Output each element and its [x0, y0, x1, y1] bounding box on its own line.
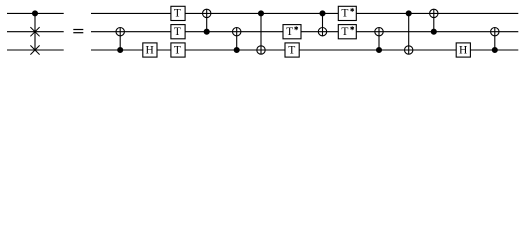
cnot3 target q1: [233, 28, 241, 36]
gate T3 box q2: [171, 43, 185, 57]
cnot4 target q2: [257, 46, 265, 54]
cnot3 control q2: [234, 48, 239, 53]
fredkin swap cross q1: [30, 27, 39, 36]
cnot5 vertical: [322, 13, 324, 36]
fredkin swap cross q2: [30, 45, 39, 54]
gate H2 box q2: [456, 43, 470, 57]
cnot6 vertical: [378, 28, 380, 51]
cnot6 control q2: [377, 48, 382, 53]
cnot3 vertical: [236, 28, 238, 51]
svg-text:H: H: [459, 44, 467, 56]
wire q2 right: [91, 49, 518, 51]
cnot8 control q1: [431, 29, 436, 34]
cnot5 target q1: [318, 28, 326, 36]
gate T2 box q1: [171, 25, 185, 39]
wire q0 right: [91, 12, 518, 14]
cnot8 vertical: [433, 9, 435, 32]
wire q1 left: [7, 31, 64, 33]
cnot2 vertical: [206, 9, 208, 32]
fredkin vertical wire: [34, 13, 36, 50]
cnot6 target q1: [375, 28, 383, 36]
fredkin control dot: [33, 11, 38, 16]
svg-text:T: T: [286, 26, 293, 38]
svg-text:T: T: [288, 44, 295, 56]
svg-text:H: H: [146, 44, 154, 56]
gate T4 box q2: [285, 43, 299, 57]
cnot9 target q1: [491, 28, 499, 36]
gate Tdg1 box q1: [283, 25, 301, 39]
cnot1 vertical: [119, 28, 121, 51]
cnot9 vertical: [494, 28, 496, 51]
svg-text:T: T: [174, 8, 181, 20]
gate T1 box q0: [171, 6, 185, 20]
cnot4 vertical: [260, 13, 262, 54]
equals sign: [73, 29, 83, 33]
svg-text:T: T: [341, 8, 348, 20]
cnot2 target q0: [203, 9, 211, 17]
wire q1 right: [91, 31, 518, 33]
gate Tdg2 box q0: [338, 6, 356, 20]
cnot9 control q2: [492, 48, 497, 53]
cnot8 target q0: [430, 9, 438, 17]
wire q2 left: [7, 49, 64, 51]
cnot1 target q1: [116, 28, 124, 36]
svg-text:T: T: [174, 26, 181, 38]
svg-text:T: T: [174, 44, 181, 56]
cnot7 target q2: [405, 46, 413, 54]
cnot1 control q2: [118, 48, 123, 53]
cnot2 control q1: [204, 29, 209, 34]
gate H1 box q2: [143, 43, 157, 57]
cnot4 control q0: [259, 11, 264, 16]
gate Tdg3 box q1: [338, 25, 356, 39]
cnot7 control q0: [406, 11, 411, 16]
svg-text:T: T: [341, 26, 348, 38]
wire q0 left: [7, 12, 64, 14]
cnot5 control q0: [320, 11, 325, 16]
cnot7 vertical: [408, 13, 410, 54]
